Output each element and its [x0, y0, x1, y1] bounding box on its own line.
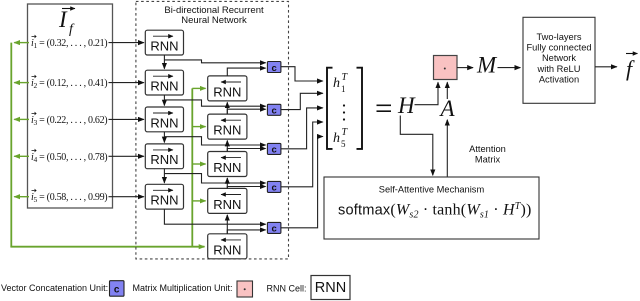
wire row5 to fRNN5: [109, 196, 144, 198]
svg-text:Activation: Activation: [539, 74, 579, 84]
dashed box title: [164, 5, 264, 26]
input box I_f: [28, 4, 113, 208]
svg-text:Fully connected: Fully connected: [526, 43, 591, 53]
legend multiplication unit box: [237, 281, 253, 297]
svg-text:5: 5: [341, 139, 346, 149]
bwd output wire 4 to c4: [227, 187, 265, 189]
backward RNN2: [208, 114, 247, 139]
fwd state wire 3-4: [163, 132, 165, 143]
svg-text:c: c: [271, 63, 276, 74]
wire row4 to fRNN4: [109, 155, 144, 157]
wire c3 to bracket: [281, 108, 323, 149]
green arrow to bRNN1: [192, 87, 205, 89]
svg-text:A: A: [439, 96, 456, 121]
equals sign: [377, 105, 392, 111]
legend RNN cell box: [311, 276, 350, 300]
bwd state wire 4-3: [226, 178, 228, 188]
svg-text:RNN: RNN: [213, 242, 241, 257]
input row i2: [31, 75, 107, 90]
svg-text:Self-Attentive Mechanism: Self-Attentive Mechanism: [379, 185, 485, 195]
matrix right bracket: [357, 68, 363, 149]
svg-text:c: c: [271, 106, 276, 117]
forward RNN5: [145, 184, 183, 209]
FC network text: [526, 32, 591, 84]
forward RNN3: [145, 107, 183, 132]
wire row2 to fRNN2: [109, 82, 144, 84]
svg-text:i5 = (0.58, . . . , 0.99): i5 = (0.58, . . . , 0.99): [31, 192, 107, 204]
wire A to multiplier: [446, 82, 448, 99]
matrix left bracket: [327, 68, 333, 149]
wire row3 to fRNN3: [109, 118, 144, 120]
wire H to multiplier: [415, 82, 439, 104]
concat unit c3: [267, 143, 281, 155]
concat unit c2: [267, 104, 281, 116]
svg-text:H: H: [397, 93, 416, 118]
svg-text:RNN Cell:: RNN Cell:: [267, 284, 307, 294]
matrix entry h5T: [333, 127, 349, 149]
svg-text:T: T: [342, 72, 349, 83]
input row i1: [31, 35, 107, 50]
wire c2 to bracket: [281, 93, 323, 109]
bwd output wire 1 to c1: [227, 68, 265, 76]
svg-text:RNN: RNN: [150, 115, 178, 130]
svg-text:RNN: RNN: [150, 79, 178, 94]
svg-text:RNN: RNN: [150, 152, 178, 167]
svg-text:i3 = (0.22, . . . , 0.62): i3 = (0.22, . . . , 0.62): [31, 115, 107, 127]
concat unit c4: [267, 181, 281, 193]
wire c1 to bracket: [281, 67, 323, 81]
bwd output wire 2 to c2: [227, 109, 265, 114]
svg-text:with ReLU: with ReLU: [537, 64, 581, 74]
dashed box bi-directional RNN: [136, 1, 289, 259]
fwd output wire 5 to c5: [164, 209, 265, 224]
input row i4: [31, 149, 107, 164]
input row i3: [31, 112, 107, 127]
wire c4 to bracket: [281, 122, 323, 187]
svg-text:softmax(Ws2 · tanh(Ws1 · HT)): softmax(Ws2 · tanh(Ws1 · HT)): [338, 201, 532, 220]
wire c5 to bracket: [281, 137, 323, 228]
svg-text:c: c: [271, 183, 276, 194]
svg-text:c: c: [114, 284, 120, 295]
bwd output wire 5 to c5: [227, 230, 265, 234]
forward RNN1: [145, 30, 183, 55]
svg-text:h: h: [333, 131, 340, 146]
backward RNN1: [208, 76, 247, 101]
svg-text:Two-layers: Two-layers: [537, 32, 582, 42]
svg-text:c: c: [271, 145, 276, 156]
svg-text:f: f: [69, 22, 75, 37]
svg-text:RNN: RNN: [213, 123, 241, 138]
svg-text:Vector Concatenation Unit:: Vector Concatenation Unit:: [1, 283, 108, 293]
attention matrix label: [469, 144, 506, 165]
green bus vertical left: [10, 43, 12, 247]
input row i5: [31, 189, 107, 204]
svg-text:RNN: RNN: [315, 280, 346, 296]
concat unit c5: [267, 222, 281, 234]
green stub row1: [14, 42, 29, 44]
arrow FC to f: [595, 66, 617, 68]
arrow multiplier to M: [457, 67, 473, 69]
green arrow to bRNN4: [192, 200, 205, 202]
backward RNN4: [208, 188, 247, 213]
forward RNN4: [145, 144, 183, 169]
svg-text:i4 = (0.50, . . . , 0.78): i4 = (0.50, . . . , 0.78): [31, 152, 107, 164]
fwd output wire 2 to c2: [164, 100, 265, 106]
self-attentive mechanism box: [324, 177, 539, 239]
svg-text:1: 1: [341, 84, 346, 94]
arrow M to FC network: [498, 67, 521, 69]
svg-text:Network: Network: [542, 53, 576, 63]
fwd state wire 4-5: [163, 169, 165, 183]
bwd state wire 5-4: [226, 215, 228, 234]
backward RNN5: [208, 234, 247, 259]
svg-text:Attention: Attention: [469, 144, 506, 154]
svg-text:I: I: [58, 7, 68, 32]
green stub row4: [14, 155, 29, 157]
svg-text:T: T: [342, 127, 349, 138]
fwd state wire 2-3: [163, 95, 165, 106]
svg-text:RNN: RNN: [150, 39, 178, 54]
svg-text:c: c: [271, 224, 276, 235]
svg-text:Matrix Multiplication Unit:: Matrix Multiplication Unit:: [133, 283, 233, 293]
fwd output wire 3 to c3: [164, 137, 265, 145]
svg-text:i2 = (0.12, . . . , 0.41): i2 = (0.12, . . . , 0.41): [31, 78, 107, 90]
green bus right vertical: [191, 88, 193, 246]
bwd output wire 3 to c3: [227, 149, 265, 152]
svg-text:RNN: RNN: [213, 84, 241, 99]
svg-text:f: f: [626, 56, 635, 81]
wire row1 to fRNN1: [109, 42, 144, 44]
green stub row5: [14, 196, 29, 198]
svg-text:Matrix: Matrix: [475, 155, 501, 165]
svg-text:M: M: [476, 53, 498, 78]
svg-text:h: h: [333, 76, 340, 91]
vector arrow over I: [62, 8, 75, 10]
f output label: [626, 54, 638, 82]
concat unit c1: [267, 62, 281, 74]
bwd state wire 3-2: [226, 141, 228, 152]
forward RNN2: [145, 70, 183, 95]
fwd output wire 4 to c4: [164, 174, 265, 183]
green bus bottom horizontal: [10, 246, 204, 248]
bwd state wire 2-1: [226, 102, 228, 114]
svg-text:RNN: RNN: [150, 193, 178, 208]
FC network box: [523, 17, 595, 103]
fwd output wire 1 to c1: [164, 60, 265, 63]
green stub row2: [14, 82, 29, 84]
wire attention box to A: [446, 120, 448, 177]
svg-text:RNN: RNN: [213, 160, 241, 175]
svg-text:RNN: RNN: [213, 197, 241, 212]
matrix entry h1T: [333, 72, 349, 94]
matrix multiplication unit: [434, 56, 458, 80]
legend concat unit box: [110, 281, 125, 297]
green stub row3: [14, 118, 29, 120]
wire H down to attention box: [400, 116, 433, 176]
green arrow to bRNN3: [192, 163, 205, 165]
svg-text:i1 = (0.32, . . . , 0.21): i1 = (0.32, . . . , 0.21): [31, 38, 107, 50]
backward RNN3: [208, 152, 247, 177]
fwd state wire 1-2: [163, 55, 165, 69]
green arrow to bRNN2: [192, 126, 205, 128]
svg-text:Neural Network: Neural Network: [181, 15, 247, 26]
matrix vdots: [343, 104, 345, 120]
input box title I_f: [58, 7, 75, 37]
